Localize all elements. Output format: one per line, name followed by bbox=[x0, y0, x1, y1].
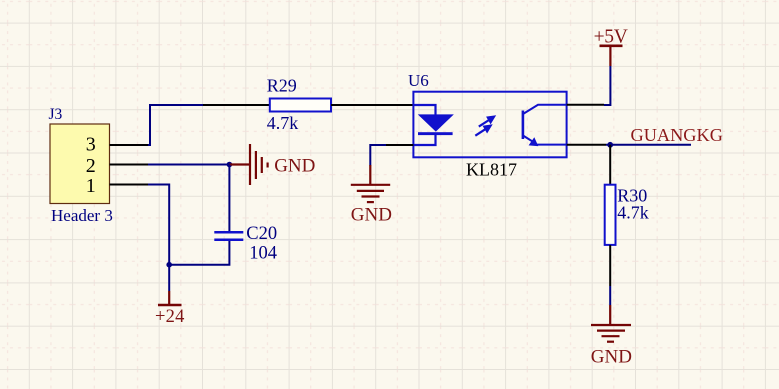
ground GND bottom right bbox=[591, 305, 632, 368]
phototransistor inside U6 bbox=[522, 105, 567, 146]
ground GND rotated at pin2 bbox=[229, 144, 315, 185]
wire collector pin bbox=[567, 104, 604, 106]
svg-text:J3: J3 bbox=[49, 106, 63, 123]
svg-text:2: 2 bbox=[86, 155, 96, 177]
svg-text:104: 104 bbox=[249, 244, 277, 264]
wire +5V down to collector bbox=[604, 66, 610, 105]
resistor R29 bbox=[270, 99, 331, 112]
svg-text:KL817: KL817 bbox=[466, 160, 517, 180]
light arrow 2 bbox=[475, 125, 491, 136]
power +24 bbox=[155, 291, 185, 327]
optocoupler U6 box bbox=[413, 92, 566, 158]
svg-text:GND: GND bbox=[351, 205, 392, 226]
junction at pin2 node bbox=[227, 162, 233, 168]
wire pin2 to junction bbox=[148, 164, 229, 166]
pin 2 stub bbox=[110, 164, 149, 166]
wire R29 to U6 bbox=[331, 104, 413, 106]
svg-text:+24: +24 bbox=[155, 307, 185, 327]
svg-text:GND: GND bbox=[274, 156, 315, 177]
svg-text:4.7k: 4.7k bbox=[267, 113, 299, 133]
wire C20 bottom to junction bbox=[169, 241, 229, 265]
pin 1 stub bbox=[110, 184, 149, 186]
svg-text:R29: R29 bbox=[267, 76, 297, 96]
ground GND under U6 bbox=[351, 165, 392, 226]
junction at emitter node bbox=[607, 142, 613, 148]
svg-text:1: 1 bbox=[86, 175, 96, 197]
svg-text:4.7k: 4.7k bbox=[617, 203, 649, 223]
light arrow 1 bbox=[479, 116, 495, 127]
svg-text:3: 3 bbox=[86, 134, 96, 156]
svg-text:GND: GND bbox=[591, 347, 632, 368]
wire junction down to C20 bbox=[228, 165, 230, 232]
wire segment into R29 left pin bbox=[203, 104, 270, 106]
junction at pin1 node bbox=[166, 262, 172, 268]
svg-text:U6: U6 bbox=[408, 71, 429, 90]
wire emitter pin bbox=[567, 144, 606, 146]
svg-text:Header 3: Header 3 bbox=[51, 206, 113, 225]
wire junction down to R30 bbox=[609, 145, 611, 185]
svg-text:+5V: +5V bbox=[594, 27, 628, 48]
connector J3 body bbox=[50, 124, 110, 204]
wire pin1 down bbox=[148, 185, 169, 265]
resistor R30 bbox=[605, 185, 616, 245]
svg-text:C20: C20 bbox=[246, 224, 277, 244]
wire pin3 to R29 bbox=[148, 105, 203, 145]
wire U6 cathode to GND bbox=[370, 145, 413, 166]
pin 3 stub bbox=[110, 144, 149, 146]
LED inside U6 bbox=[414, 105, 453, 145]
wire junction to +24 bbox=[168, 265, 170, 291]
svg-text:GUANGKG: GUANGKG bbox=[631, 125, 723, 145]
wire R30 to GND bbox=[609, 245, 611, 305]
wire net GUANGKG bbox=[606, 144, 691, 146]
capacitor C20 bbox=[214, 231, 243, 241]
power +5V bbox=[594, 27, 628, 67]
